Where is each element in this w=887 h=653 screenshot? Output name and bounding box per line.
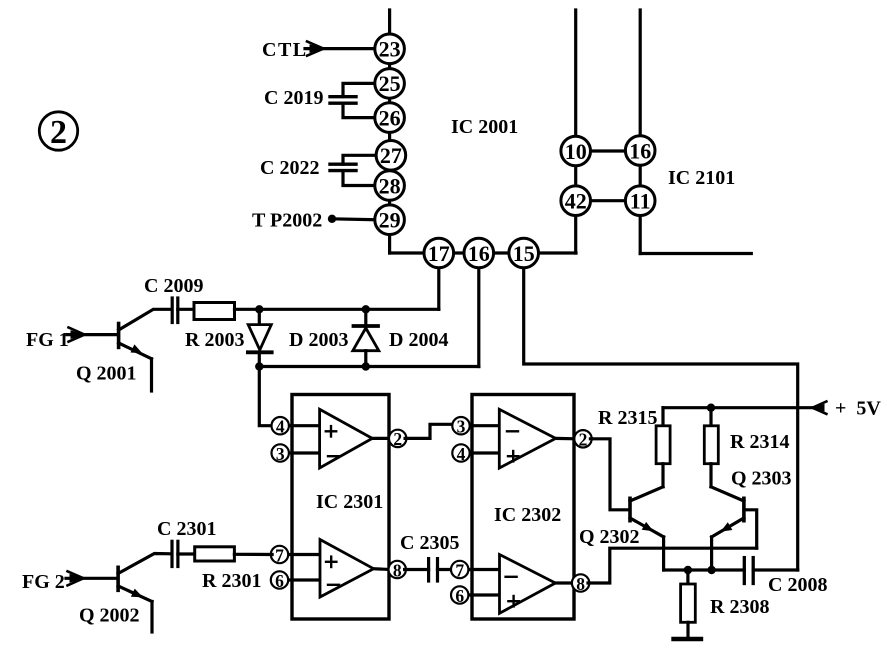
svg-text:7: 7: [275, 545, 284, 565]
capacitor C2305: [405, 559, 453, 581]
op-amp U2 box IC2302: [472, 395, 574, 620]
svg-text:R 2315: R 2315: [598, 407, 657, 429]
svg-text:7: 7: [455, 560, 464, 580]
svg-text:2: 2: [393, 429, 402, 449]
svg-text:R 2301: R 2301: [202, 570, 261, 592]
svg-text:R 2308: R 2308: [710, 596, 769, 618]
svg-text:4: 4: [457, 444, 466, 464]
node CTL input arrow: [305, 42, 375, 56]
pin 3 of IC2301: [272, 444, 289, 464]
svg-text:FG 1: FG 1: [26, 329, 69, 351]
node FG2 input arrow: [66, 571, 117, 585]
wire: IC2302 pin8 to Q2303 base run: [588, 548, 757, 583]
node TP2002 test point: [328, 215, 375, 223]
wire: pin42 to pin11 link: [576, 199, 641, 202]
pin 8 of IC2301: [389, 560, 406, 580]
svg-text:25: 25: [379, 71, 401, 96]
svg-text:2: 2: [579, 430, 588, 450]
wire: upper diode rail R2003 to pin17: [235, 308, 439, 311]
wire: IC2101 pin16/11 vertical: [639, 10, 642, 254]
svg-text:R 2314: R 2314: [730, 431, 789, 453]
pin 11 of IC2101: [625, 186, 655, 216]
pin 26 of IC2001: [375, 103, 405, 133]
svg-text:FG 2: FG 2: [22, 571, 65, 593]
svg-text:27: 27: [380, 143, 402, 168]
sheet marker circled 2: [39, 112, 77, 151]
pin 4 of IC2301: [272, 417, 289, 437]
svg-text:6: 6: [275, 571, 284, 591]
wire: pin16 drop to lower diode rail: [477, 253, 480, 367]
transistor Q2303: [711, 487, 757, 570]
junction: D2004 bottom: [362, 362, 370, 370]
svg-text:8: 8: [576, 574, 585, 594]
pin 3 of IC2302: [452, 417, 469, 437]
svg-text:26: 26: [379, 105, 401, 130]
capacitor C2009: [172, 298, 194, 323]
pin 7 of IC2302: [451, 560, 468, 580]
svg-text:6: 6: [455, 586, 464, 606]
op-amp IC2302b: [467, 555, 573, 614]
svg-text:4: 4: [276, 417, 285, 437]
pin 23 of IC2001: [375, 34, 405, 64]
svg-text:C 2305: C 2305: [400, 532, 459, 554]
svg-text:C 2009: C 2009: [144, 275, 203, 297]
wire: pin10 to pin16 link: [576, 149, 641, 152]
capacitor C2022: [330, 155, 376, 185]
svg-text:R 2003: R 2003: [185, 329, 244, 351]
pin 16 of IC2101: [625, 136, 655, 166]
svg-text:2: 2: [50, 114, 67, 151]
pin 25 of IC2001: [375, 69, 405, 99]
wire: pin11 down then right stub: [640, 252, 751, 255]
pin 2 of IC2302: [574, 430, 591, 450]
svg-text:D 2004: D 2004: [389, 329, 448, 351]
op-amp IC2302a: [468, 409, 575, 468]
pin 17 of IC2001: [424, 238, 454, 268]
junction: Q2303 emitter tap: [707, 566, 715, 574]
junction: R2314 top on +5V rail: [707, 404, 715, 412]
diode D2003: [248, 309, 272, 366]
wire: IC2302 pin2 to Q2302 base: [590, 439, 628, 510]
op-amp U1 box IC2301: [292, 395, 389, 620]
junction: D2003 bottom: [255, 362, 263, 370]
svg-text:T P2002: T P2002: [252, 210, 322, 232]
capacitor C2008: [744, 558, 797, 584]
svg-text:IC 2302: IC 2302: [494, 504, 561, 526]
wire: lower rail to IC2301 pin4: [259, 367, 272, 426]
svg-text:28: 28: [379, 173, 401, 198]
svg-text:16: 16: [468, 241, 490, 266]
pin 16 of IC2001: [464, 238, 494, 268]
svg-text:C 2008: C 2008: [768, 574, 827, 596]
diode D2004: [353, 309, 379, 366]
wire: pin29 corner to pin row 17-16-15: [390, 251, 576, 254]
pin 7 of IC2301: [271, 545, 288, 565]
ground: [674, 637, 702, 641]
resistor R2315: [656, 408, 670, 487]
svg-text:IC 2101: IC 2101: [668, 167, 735, 189]
wire: lower diode rail to pin16 drop: [259, 365, 479, 368]
pin 15 of IC2001: [509, 238, 539, 268]
pin 4 of IC2302: [452, 444, 469, 464]
wire: pin17 drop to diode rail: [437, 253, 440, 309]
svg-text:10: 10: [565, 139, 587, 164]
wire: pin15 drop and run to +5V column: [524, 253, 798, 570]
svg-text:Q 2002: Q 2002: [79, 605, 140, 627]
pin 8 of IC2302: [572, 574, 589, 594]
net +5V rail: [663, 402, 826, 414]
svg-text:17: 17: [428, 241, 450, 266]
svg-text:15: 15: [513, 241, 535, 266]
junction: R2003/D2003 top: [255, 305, 263, 313]
svg-text:Q 2303: Q 2303: [731, 468, 792, 490]
op-amp IC2301a: [288, 409, 391, 468]
svg-text:Q 2001: Q 2001: [76, 363, 137, 385]
transistor Q2001: [119, 309, 171, 391]
op-amp IC2301b: [287, 540, 390, 598]
svg-text:11: 11: [630, 189, 651, 214]
junction: D2004 top: [362, 305, 370, 313]
pin 28 of IC2001: [375, 171, 405, 201]
svg-text:C 2022: C 2022: [260, 157, 319, 179]
svg-text:29: 29: [379, 208, 401, 233]
resistor R2003: [194, 303, 235, 320]
svg-text:IC 2301: IC 2301: [316, 491, 383, 513]
pin 29 of IC2001: [375, 205, 405, 235]
wire: IC2001 pin10/42 vertical: [574, 10, 577, 253]
transistor Q2002: [118, 554, 170, 633]
svg-text:3: 3: [457, 417, 466, 437]
svg-text:CTL: CTL: [262, 39, 308, 61]
wire: IC2301 pin2 to IC2302 pin3: [405, 424, 454, 438]
pin 42 of IC2001: [561, 186, 591, 216]
node FG1 input arrow: [67, 328, 117, 342]
capacitor C2019: [330, 83, 375, 117]
svg-text:Q 2302: Q 2302: [579, 526, 640, 548]
svg-text:D 2003: D 2003: [289, 329, 348, 351]
resistor R2314: [704, 408, 718, 487]
pin 6 of IC2302: [451, 586, 468, 606]
svg-text:C 2301: C 2301: [157, 518, 216, 540]
resistor R2301: [195, 547, 272, 561]
pin 27 of IC2001: [376, 141, 406, 171]
svg-text:23: 23: [379, 37, 401, 62]
transistor Q2302: [630, 487, 664, 570]
resistor R2308: [681, 570, 696, 637]
wire: IC2001 left pin column vertical bus: [388, 10, 391, 253]
svg-text:+ 5V: + 5V: [835, 398, 881, 420]
junction: R2308 tap: [684, 566, 692, 574]
svg-text:C 2019: C 2019: [264, 87, 323, 109]
svg-text:8: 8: [393, 560, 402, 580]
svg-text:IC 2001: IC 2001: [451, 116, 518, 138]
pin 10 of IC2001: [561, 136, 591, 166]
svg-text:16: 16: [629, 138, 651, 163]
wire: emitter common node rail: [664, 568, 745, 571]
capacitor C2301: [172, 541, 195, 566]
pin 6 of IC2301: [271, 571, 288, 591]
svg-text:42: 42: [565, 189, 587, 214]
pin 2 of IC2301: [389, 429, 406, 449]
svg-text:3: 3: [276, 444, 285, 464]
